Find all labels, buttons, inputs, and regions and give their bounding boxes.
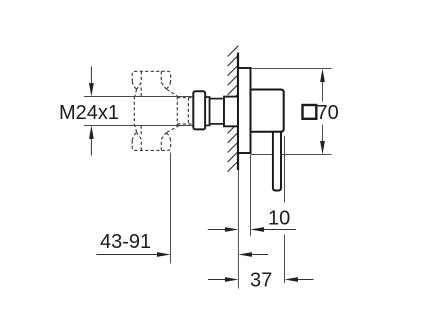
svg-text:70: 70 bbox=[317, 102, 339, 124]
extension line C (lever face), gap for text 10 bbox=[284, 136, 286, 283]
front section dashed bbox=[177, 98, 193, 124]
extension line A (wall face, below wall) bbox=[237, 170, 239, 289]
top branch chamfers bbox=[132, 82, 170, 90]
stem step bbox=[205, 97, 209, 125]
dimension M24x1 (arrows at x=91) bbox=[89, 67, 94, 156]
svg-text:10: 10 bbox=[268, 207, 290, 229]
top branch neck to body bbox=[135, 88, 177, 97]
square symbol for 70 bbox=[303, 105, 317, 119]
bottom branch chamfers bbox=[132, 132, 170, 140]
dimension 37 (outside arrows) bbox=[208, 277, 314, 282]
dimension square-70 (vertical line at x=322.8) bbox=[320, 69, 325, 155]
M24 sleeve outline (extension lines for M24x1) bbox=[84, 97, 194, 126]
handle base cylinder bbox=[251, 90, 284, 132]
svg-text:43-91: 43-91 bbox=[100, 231, 151, 253]
wall collar bbox=[224, 97, 238, 127]
wall face line bbox=[237, 53, 239, 171]
concealed valve body (dashed) bbox=[132, 71, 193, 150]
svg-text:37: 37 bbox=[250, 270, 272, 292]
dim 70: top extension line bbox=[251, 68, 332, 70]
svg-text:M24x1: M24x1 bbox=[59, 102, 119, 124]
top branch inner verticals bbox=[141, 71, 161, 82]
wall hatching bbox=[228, 46, 239, 172]
bottom branch inner verticals bbox=[141, 139, 161, 150]
dimension 10 (outside arrows) bbox=[208, 227, 296, 232]
dimension 43-91 (outside arrows) bbox=[96, 252, 268, 257]
main body left edge bbox=[133, 96, 135, 125]
top branch outer outline bbox=[132, 71, 170, 81]
extension line for 43-91 (valve end) bbox=[170, 153, 172, 264]
extension line B (plate front face) bbox=[250, 155, 252, 236]
handle lever bbox=[273, 132, 281, 191]
packing flange bbox=[193, 91, 205, 129]
bottom branch neck to body bbox=[135, 126, 179, 135]
escutcheon plate bbox=[238, 68, 251, 153]
stem neck bbox=[210, 99, 224, 124]
main body right edge bbox=[176, 96, 178, 125]
bottom branch outer outline bbox=[132, 140, 170, 150]
dim 70: bottom extension line bbox=[251, 154, 332, 156]
